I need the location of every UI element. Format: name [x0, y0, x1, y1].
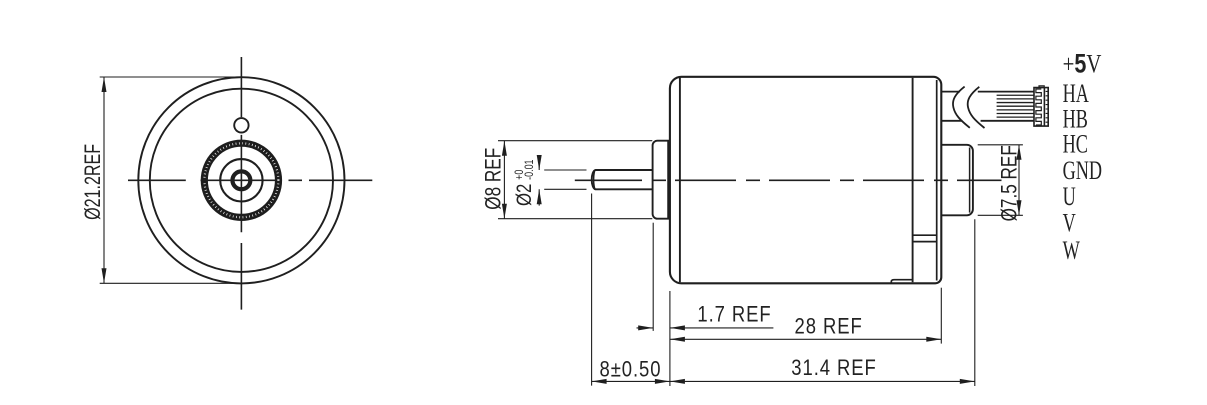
connector right edge ticks [1046, 91, 1049, 122]
rear can seam [912, 78, 914, 282]
extension line boss rear face [974, 219, 976, 386]
end cap groove lines [913, 235, 937, 241]
hub rim inner circle [207, 146, 275, 214]
dim Ø7.5 dimension line [1018, 145, 1020, 216]
arrow 1.7 left [638, 325, 653, 330]
horizontal centerline [128, 179, 372, 181]
svg-text:Ø21.2REF: Ø21.2REF [82, 144, 106, 220]
arrow 28 left [670, 337, 685, 342]
svg-text:V: V [1063, 208, 1076, 237]
front bearing flange [653, 141, 669, 219]
extension line shaft end [591, 194, 593, 386]
arrow 1.7 right [670, 325, 685, 330]
connector housing [1034, 88, 1048, 127]
svg-text:Ø2: Ø2 [513, 184, 536, 206]
arrow Ø21.2 top [102, 77, 107, 92]
rear boss chamfer line [969, 148, 971, 213]
motor inner can circle [150, 89, 333, 272]
dim 8/31.4 line [592, 380, 975, 382]
hub rim outer circle [202, 141, 281, 220]
connector comb teeth [1036, 89, 1041, 125]
hub rim hatch band [204, 143, 278, 217]
cable break curve 2 [968, 87, 985, 128]
svg-text:W: W [1063, 236, 1081, 265]
svg-text:Ø8 REF: Ø8 REF [482, 148, 507, 210]
svg-text:31.4 REF: 31.4 REF [791, 356, 876, 380]
arrowheads [102, 77, 1022, 384]
arrow 31.4 left [670, 379, 685, 384]
shaft [592, 170, 653, 189]
svg-text:8±0.50: 8±0.50 [600, 358, 662, 382]
end cap inner rim line [936, 80, 938, 281]
front can seam [679, 78, 681, 282]
extension line flange left face [652, 223, 654, 331]
shaft end chamfer arc [594, 170, 596, 189]
bottom ledge step [891, 280, 912, 284]
wire lines [997, 95, 1035, 117]
svg-text:1.7 REF: 1.7 REF [697, 303, 771, 327]
arrow Ø2 top [537, 155, 542, 170]
arrow 8 left [592, 379, 607, 384]
vertical centerline [240, 57, 242, 310]
arrow Ø7.5 bottom [1017, 200, 1022, 215]
motor body outline [670, 77, 941, 283]
dim 1.7 REF lines [637, 327, 774, 329]
cable break curve 1 [953, 87, 970, 128]
cable band [941, 92, 1034, 121]
dim Ø21.2REF extension lines [100, 77, 244, 283]
dim Ø2 dimension line [538, 157, 540, 205]
arrow Ø7.5 top [1017, 145, 1022, 160]
dim 28 REF line [670, 338, 941, 340]
svg-text:+5V: +5V [1063, 49, 1102, 79]
arrow Ø8 top [502, 141, 507, 156]
dim Ø21.2REF dimension line [103, 77, 105, 283]
arrow Ø8 bottom [502, 204, 507, 219]
side view centerline [575, 179, 1002, 181]
arrow Ø2 bottom [537, 189, 542, 204]
arrow 8 right [655, 379, 670, 384]
dim Ø7.5 extension lines [978, 145, 1023, 216]
svg-text:Ø7.5 REF: Ø7.5 REF [998, 145, 1023, 221]
extension line body front face [669, 291, 671, 386]
label Ø2 +0 -0.01 [513, 159, 536, 206]
dim Ø8 dimension line [503, 141, 505, 219]
arrow 31.4 right [960, 379, 975, 384]
connector top tab [1039, 86, 1044, 88]
svg-text:-0.01: -0.01 [524, 159, 536, 180]
svg-text:HC: HC [1063, 129, 1088, 158]
extension line body rear face [940, 288, 942, 344]
pin hole circle [234, 118, 248, 132]
dim Ø8 extension lines [498, 141, 652, 219]
arrow 28 right [926, 337, 941, 342]
motor outer can circle [138, 77, 344, 283]
svg-text:GND: GND [1063, 156, 1102, 185]
arrow Ø21.2 bottom [102, 268, 107, 283]
shaft bore ring [232, 171, 250, 189]
bearing circle [220, 159, 262, 201]
svg-text:U: U [1063, 182, 1076, 211]
hub rim hatch texture [204, 143, 278, 217]
svg-text:28 REF: 28 REF [795, 315, 863, 339]
dim Ø2 extension lines [544, 170, 586, 189]
rear boss [941, 145, 973, 216]
